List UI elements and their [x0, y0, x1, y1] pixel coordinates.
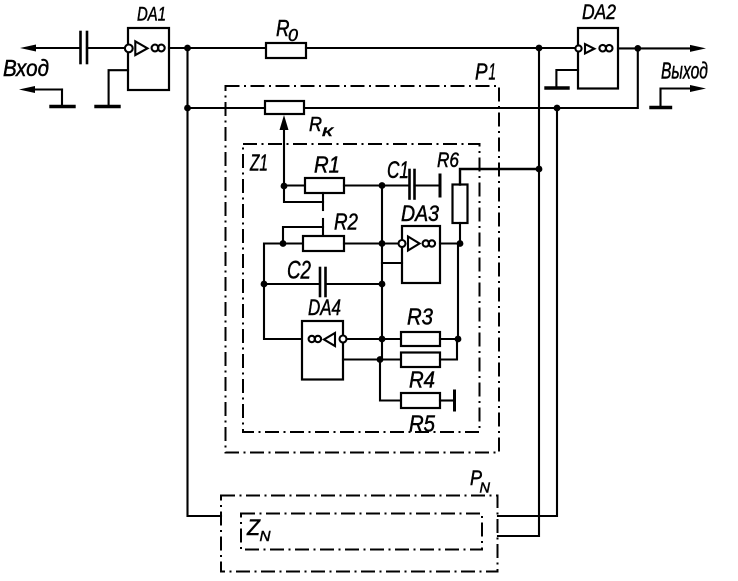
- node junction R2 left: [280, 240, 287, 247]
- capacitor C2: [319, 268, 322, 296]
- wire R2 tap hook: [283, 227, 323, 244]
- wire DA4 pin2 to R4: [343, 358, 401, 360]
- wire R6 bottom: [459, 223, 461, 244]
- svg-text:R1: R1: [314, 151, 340, 177]
- wire R2 row left branch: [264, 244, 302, 340]
- op-amp U DA1: [125, 28, 169, 90]
- wire R4 right up to R3 right: [440, 341, 457, 360]
- output arrow 1: [690, 45, 706, 52]
- svg-text:Вход: Вход: [3, 55, 49, 81]
- wire R1 to C1: [344, 184, 409, 186]
- resistor R0: [266, 43, 306, 58]
- svg-text:R2: R2: [334, 210, 358, 235]
- svg-text:DA2: DA2: [582, 0, 616, 24]
- node junction A2: [536, 45, 543, 52]
- node junction DA3 out: [457, 240, 464, 247]
- node Вход terminal 2: [19, 86, 35, 93]
- wire C2 right: [327, 283, 383, 285]
- svg-text:R: R: [309, 114, 322, 136]
- svg-text:N: N: [260, 528, 271, 545]
- wire R1 tap hook: [284, 186, 323, 202]
- ground input: [51, 105, 74, 108]
- wire DA3 pin2 hook: [382, 262, 402, 264]
- svg-text:P: P: [475, 60, 488, 85]
- capacitor C1: [408, 170, 411, 199]
- op-amp U DA2: [575, 28, 618, 89]
- box Z1 (dash-dot): [243, 144, 480, 432]
- resistor R1: [305, 178, 344, 193]
- wire R1 row: [284, 184, 305, 186]
- node junction B1: [554, 105, 561, 112]
- wire feedback top: output junction down and across to DA1 junction: [188, 48, 638, 108]
- contact bar R5: [453, 391, 456, 410]
- node junction A1: [184, 45, 191, 52]
- svg-text:R6: R6: [437, 149, 459, 172]
- svg-text:DA3: DA3: [401, 202, 439, 226]
- input arrow 1: [20, 45, 36, 52]
- svg-text:Выход: Выход: [661, 59, 708, 85]
- svg-text:Z1: Z1: [249, 151, 268, 177]
- box ZN (dash-dot): [241, 514, 482, 550]
- box PN (dash-dot): [221, 496, 498, 572]
- wire R3 right: [440, 338, 458, 340]
- svg-text:C1: C1: [387, 157, 409, 183]
- node junction R4 left: [377, 356, 384, 363]
- svg-text:R5: R5: [409, 410, 436, 436]
- resistor R6: [453, 185, 468, 224]
- svg-text:R4: R4: [409, 366, 435, 392]
- wire R5 branch: [380, 360, 401, 401]
- svg-text:к: к: [322, 122, 335, 140]
- node junction R3 left: [379, 336, 386, 343]
- wire R5 right: [440, 399, 453, 401]
- node junction C2 right: [379, 281, 386, 288]
- wire input top: [34, 47, 80, 49]
- box P1 (dash-dot): [226, 86, 500, 453]
- contact bar C1: [439, 175, 442, 196]
- wire C2 left: [264, 283, 319, 285]
- wire Rk wiper arrow: [283, 128, 285, 186]
- node junction R1 left: [281, 183, 288, 190]
- op-amp U DA4: [302, 321, 347, 380]
- wire DA1 output to R0: [169, 47, 266, 49]
- node junction R6-A: [536, 166, 543, 173]
- svg-text:N: N: [480, 480, 491, 496]
- wire DA1 pin2: [109, 70, 128, 104]
- wire B right vertical from feedback wire down to PN upper stub: [498, 108, 557, 516]
- svg-text:C2: C2: [287, 256, 311, 284]
- node junction R3 right: [455, 336, 462, 343]
- node junction C2 left: [261, 281, 268, 288]
- wire vertical R6bottom to R3 right: [457, 244, 459, 340]
- wire DA4 output to R3: [347, 338, 402, 340]
- wire C1 to contact: [415, 184, 440, 186]
- ground DA1: [96, 105, 119, 108]
- resistor R4: [401, 353, 440, 368]
- ground DA2: [546, 86, 568, 89]
- wire DA3 output: [440, 242, 460, 244]
- svg-text:1: 1: [489, 59, 496, 85]
- wire A right vertical from main wire down to PN lower stub: [498, 48, 539, 536]
- wire cap to DA1: [87, 47, 125, 49]
- svg-text:R3: R3: [407, 303, 433, 329]
- op-amp U DA3: [399, 226, 441, 283]
- resistor R2: [303, 236, 344, 251]
- wire R0 to DA2: [306, 47, 575, 49]
- resistor R3: [401, 332, 440, 346]
- wire into R2: [283, 242, 303, 244]
- svg-text:0: 0: [288, 25, 298, 45]
- node junction C1 left: [379, 182, 386, 189]
- svg-text:DA1: DA1: [137, 3, 166, 25]
- wire vertical bus x382: [381, 186, 383, 360]
- wire R6 top to wire A: [460, 169, 539, 185]
- potentiometer Rk: [265, 101, 304, 114]
- wire R2 to DA3: [344, 242, 399, 244]
- capacitor input: [79, 32, 82, 63]
- node Выход terminal 2: [651, 106, 671, 109]
- wire DA2 output: [618, 47, 691, 49]
- svg-text:DA4: DA4: [308, 296, 341, 321]
- wire left vertical down to PN box: [188, 48, 222, 516]
- node junction out: [634, 45, 641, 52]
- resistor R5: [401, 393, 440, 408]
- node junction DA3 in: [379, 240, 386, 247]
- wire DA2 pin2: [556, 70, 578, 86]
- node junction left: [184, 105, 191, 112]
